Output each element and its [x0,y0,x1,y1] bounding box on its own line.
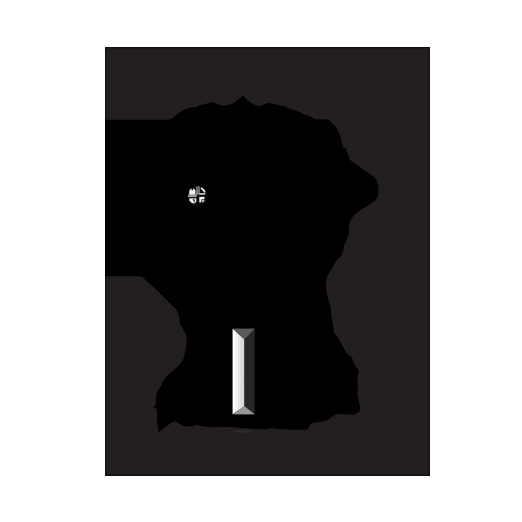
screw base circle [188,186,208,206]
dark gray card [105,47,430,476]
bottom-right white L [199,197,204,203]
bottom-left white quadrant [189,198,196,203]
left dark slot line [189,197,197,198]
black silhouette blob [105,95,379,432]
right dark slot line [197,195,206,197]
bar top face [234,329,255,340]
bar left light face [233,329,245,415]
screw icon [188,186,208,206]
dark cross vertical lower [196,196,199,204]
bottom-right white wedge [202,200,205,203]
bottom-left dark notch [193,199,195,203]
top-left white quadrant [189,188,195,194]
gray vertical slot stub [196,186,200,196]
faint smudge under bar [234,430,252,433]
beveled bar [233,329,255,415]
bar right dark face [233,329,255,415]
gray horizontal slot stub [188,195,197,198]
top-right white block [200,193,206,195]
bar bottom face [234,406,255,414]
card darker edge frame [106,48,430,476]
top-right white band [200,188,205,193]
